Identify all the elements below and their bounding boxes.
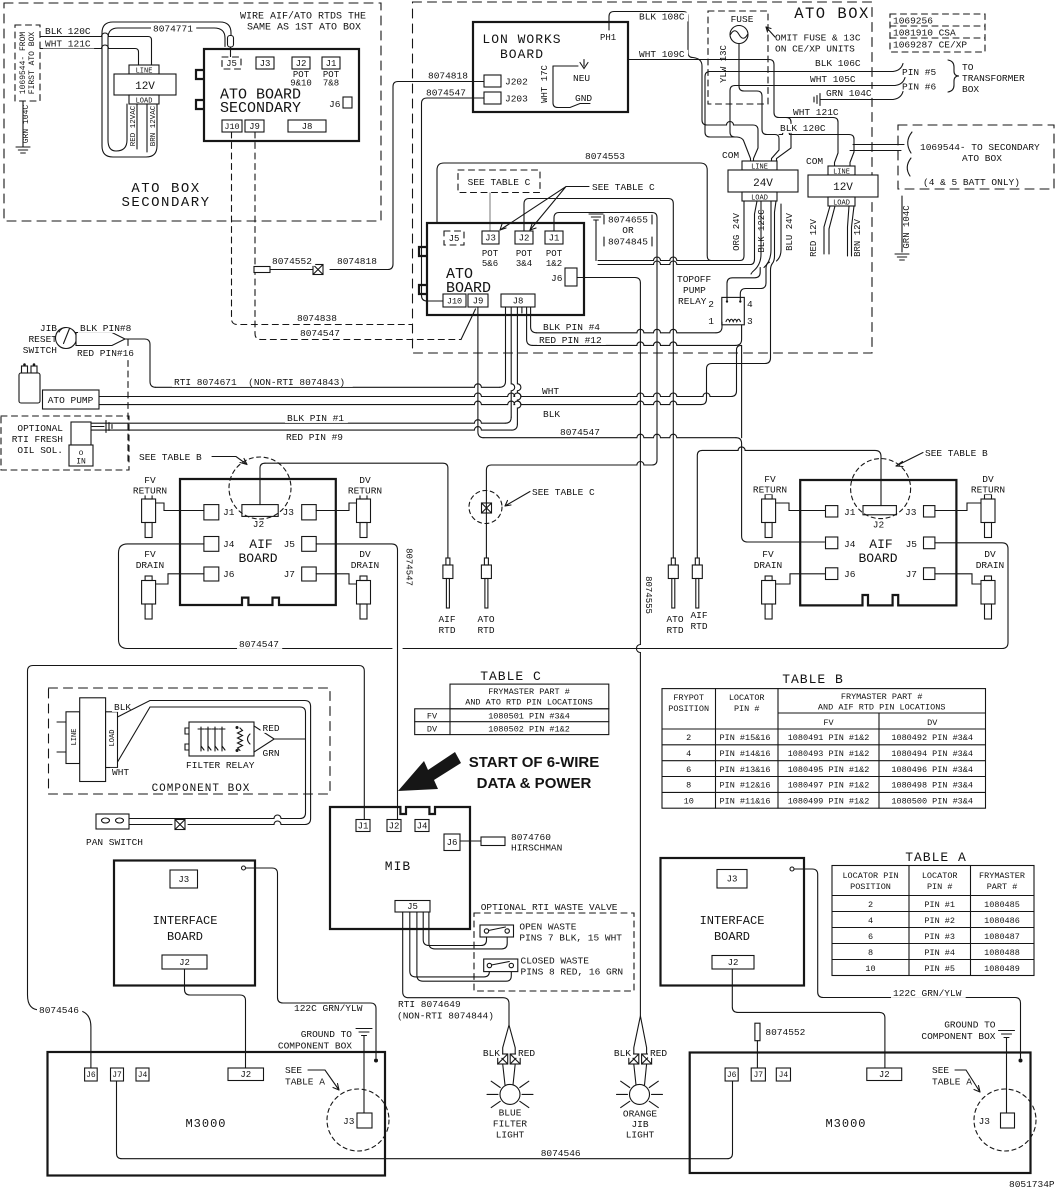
board AIF BOARD (left) bbox=[180, 479, 336, 605]
label 8074547 (top) bbox=[424, 88, 469, 97]
svg-text:J8: J8 bbox=[513, 296, 524, 306]
svg-text:FRYMASTER: FRYMASTER bbox=[979, 871, 1025, 881]
wire relay pin2 feed bbox=[727, 268, 760, 301]
svg-text:LIGHT: LIGHT bbox=[496, 1130, 525, 1141]
svg-text:RELAY: RELAY bbox=[678, 296, 707, 307]
svg-text:WHT 109C: WHT 109C bbox=[639, 49, 685, 60]
wire AIF RTD (left) feed bbox=[265, 463, 448, 558]
svg-text:1080486: 1080486 bbox=[984, 916, 1020, 926]
wire BLK 120C branch to 12V LINE bbox=[779, 131, 849, 135]
svg-text:FV: FV bbox=[144, 475, 156, 486]
splice BLK (orange light) bbox=[629, 1054, 639, 1064]
svg-text:TABLE C: TABLE C bbox=[480, 669, 542, 684]
svg-text:DV: DV bbox=[927, 718, 938, 728]
svg-text:1080489: 1080489 bbox=[984, 964, 1020, 974]
svg-text:1080502 PIN #1&2: 1080502 PIN #1&2 bbox=[488, 724, 570, 734]
wire J2(main) to right ATO RTD (via top run) bbox=[524, 199, 673, 559]
svg-text:J7: J7 bbox=[906, 569, 917, 580]
label 8074838 bbox=[295, 314, 340, 323]
connector J3 (main) bbox=[482, 231, 499, 244]
svg-text:SWITCH: SWITCH bbox=[23, 345, 57, 356]
svg-text:J6: J6 bbox=[727, 1071, 737, 1080]
svg-text:1080492 PIN #3&4: 1080492 PIN #3&4 bbox=[891, 733, 973, 743]
svg-text:8074547: 8074547 bbox=[239, 639, 279, 650]
svg-text:4: 4 bbox=[747, 299, 753, 310]
svg-text:TABLE A: TABLE A bbox=[932, 1077, 972, 1088]
connector J7 (left M3000) bbox=[111, 1068, 124, 1081]
svg-text:DRAIN: DRAIN bbox=[136, 560, 165, 571]
svg-text:DATA & POWER: DATA & POWER bbox=[477, 775, 592, 792]
svg-text:AIF: AIF bbox=[438, 614, 455, 625]
ground (GRN 104C right) bbox=[895, 254, 909, 260]
svg-text:PINS 8 RED, 16 GRN: PINS 8 RED, 16 GRN bbox=[521, 967, 624, 978]
svg-text:TO: TO bbox=[962, 62, 974, 73]
svg-text:J10: J10 bbox=[224, 122, 239, 132]
wire bottom bundle continues to right AIF bbox=[403, 648, 1002, 650]
wire 8074547 (dashed, from secondary J9) bbox=[255, 132, 461, 340]
wire V-split (orange light) bbox=[634, 1016, 647, 1054]
connector J5 (MIB) bbox=[395, 901, 430, 913]
wire BLU 24V funnel bbox=[701, 201, 776, 405]
svg-text:1080498 PIN #3&4: 1080498 PIN #3&4 bbox=[891, 781, 973, 791]
svg-text:PIN #4: PIN #4 bbox=[924, 948, 955, 958]
wire YLW 13C / BLK 120C to 12V LINE bbox=[739, 44, 779, 162]
svg-text:PART #: PART # bbox=[987, 882, 1018, 892]
svg-text:TABLE A: TABLE A bbox=[285, 1077, 325, 1088]
svg-text:WIRE AIF/ATO RTDS THE: WIRE AIF/ATO RTDS THE bbox=[240, 11, 366, 23]
node (right IB ground pad) bbox=[790, 867, 794, 871]
wire FV RETURN to J1 (right) bbox=[776, 503, 826, 511]
board ATO BOARD SECONDARY bbox=[204, 49, 359, 141]
wire BLK (transformer to pan switch loop) bbox=[118, 701, 311, 825]
svg-text:TABLE B: TABLE B bbox=[782, 672, 844, 687]
relay K1 (topoff pump relay) bbox=[722, 297, 745, 324]
svg-text:WHT 121C: WHT 121C bbox=[793, 107, 839, 118]
label BLK 106C bbox=[813, 59, 864, 68]
svg-text:BLK 106C: BLK 106C bbox=[815, 58, 861, 69]
connector J3 (secondary) bbox=[256, 57, 274, 69]
svg-text:BLK 120C: BLK 120C bbox=[780, 123, 826, 134]
svg-text:LOAD: LOAD bbox=[833, 200, 850, 208]
svg-text:1069256: 1069256 bbox=[893, 16, 933, 27]
wire relay pin4 feed bbox=[740, 262, 769, 300]
switch CLOSED WASTE bbox=[484, 959, 518, 972]
svg-text:J1: J1 bbox=[549, 233, 560, 243]
svg-text:J4: J4 bbox=[417, 821, 428, 831]
wire SEE TABLE C box to J3 bbox=[489, 193, 491, 232]
svg-text:(NON-RTI 8074844): (NON-RTI 8074844) bbox=[397, 1011, 494, 1022]
svg-text:GRN 104C: GRN 104C bbox=[22, 105, 31, 144]
connector J6 (right M3000) bbox=[725, 1068, 738, 1081]
svg-text:DV: DV bbox=[359, 475, 371, 486]
svg-text:1080485: 1080485 bbox=[984, 900, 1020, 910]
label BLK 120C bbox=[43, 27, 94, 36]
svg-text:HIRSCHMAN: HIRSCHMAN bbox=[511, 843, 562, 854]
svg-text:OR: OR bbox=[622, 225, 634, 236]
label WHT 109C bbox=[637, 50, 688, 59]
svg-text:8074771: 8074771 bbox=[153, 24, 193, 35]
svg-text:JIB: JIB bbox=[631, 1119, 648, 1130]
svg-text:BLK: BLK bbox=[543, 409, 560, 420]
valve FV RETURN (right) bbox=[762, 495, 776, 538]
connector J2 (left IB) bbox=[162, 955, 207, 969]
wire MIB J5 pin5 to open waste right bbox=[429, 912, 507, 949]
wire J2 (left AIF) drop bbox=[260, 463, 265, 504]
label BLK 108C bbox=[637, 12, 688, 21]
wire MIB J5 pin3 to closed waste right bbox=[417, 912, 511, 981]
connector J1 (MIB) bbox=[356, 820, 370, 832]
svg-text:RTD: RTD bbox=[477, 625, 494, 636]
svg-text:RTD: RTD bbox=[666, 625, 683, 636]
svg-text:8074760: 8074760 bbox=[511, 832, 551, 843]
label 8074547 (bundle) bbox=[558, 428, 603, 437]
svg-text:START OF 6-WIRE: START OF 6-WIRE bbox=[469, 754, 600, 771]
fuse enclosure (dashed) bbox=[708, 11, 768, 104]
svg-text:RED: RED bbox=[650, 1048, 667, 1059]
wire RED PIN #9 bbox=[91, 427, 511, 431]
label 8074546 (bottom) bbox=[539, 1149, 584, 1158]
svg-text:FILTER RELAY: FILTER RELAY bbox=[186, 760, 255, 771]
svg-text:SEE TABLE C: SEE TABLE C bbox=[532, 487, 595, 498]
wire J6 to hirschman bbox=[460, 840, 481, 842]
svg-text:FV: FV bbox=[764, 474, 776, 485]
connector J9 (secondary) bbox=[245, 120, 264, 132]
ATO BOX enclosure (dashed) bbox=[413, 2, 873, 353]
wire 8074818 (J202 run) bbox=[330, 82, 484, 270]
wire RED PIN #12 bbox=[533, 342, 736, 346]
transformer T2 12V bbox=[828, 166, 855, 175]
label RED (filter relay) bbox=[261, 724, 283, 733]
table TABLE B bbox=[662, 689, 986, 809]
note SEE TABLE C (dashed box) bbox=[458, 170, 540, 193]
svg-text:J5: J5 bbox=[449, 234, 460, 244]
svg-text:J7: J7 bbox=[753, 1071, 763, 1080]
solenoid OPTIONAL RTI FRESH OIL (dashed box) bbox=[1, 416, 129, 470]
svg-text:LIGHT: LIGHT bbox=[626, 1130, 655, 1141]
wire splices to blue light bbox=[503, 1064, 516, 1085]
probe AIF RTD (right) bbox=[692, 558, 702, 608]
svg-text:ATO: ATO bbox=[477, 614, 494, 625]
connector J4 (left M3000) bbox=[136, 1068, 149, 1081]
svg-text:PH1: PH1 bbox=[600, 33, 616, 43]
svg-text:RTI 8074671 (NON-RTI 8074843): RTI 8074671 (NON-RTI 8074843) bbox=[174, 377, 345, 388]
svg-text:4: 4 bbox=[686, 749, 691, 759]
wire BLK 106C bbox=[710, 71, 893, 73]
svg-text:J6: J6 bbox=[447, 838, 458, 848]
splice RED (orange light) bbox=[642, 1054, 652, 1064]
svg-text:1080491 PIN #1&2: 1080491 PIN #1&2 bbox=[788, 733, 870, 743]
COMPONENT BOX enclosure (dashed) bbox=[49, 688, 331, 794]
svg-text:PIN #12&16: PIN #12&16 bbox=[720, 781, 771, 791]
arrow (start of 6-wire) bbox=[398, 752, 461, 791]
svg-text:8074845: 8074845 bbox=[608, 237, 648, 248]
label WHT (component box) bbox=[110, 768, 132, 777]
svg-text:LOAD: LOAD bbox=[751, 195, 768, 203]
svg-text:J2: J2 bbox=[873, 520, 885, 531]
svg-text:BLK PIN #4: BLK PIN #4 bbox=[543, 322, 600, 333]
label GRN 104C bbox=[824, 89, 875, 98]
svg-text:J2: J2 bbox=[240, 1070, 251, 1080]
label 122C GRN/YLW (left) bbox=[292, 1004, 367, 1013]
svg-text:AIF: AIF bbox=[690, 610, 707, 621]
svg-text:J2: J2 bbox=[879, 1070, 890, 1080]
svg-text:LOCATOR: LOCATOR bbox=[729, 693, 765, 703]
note J3 circle (right, dashed) bbox=[974, 1089, 1036, 1151]
ground (fresh oil solenoid) bbox=[92, 421, 112, 433]
label 122C GRN/YLW (right) bbox=[891, 989, 966, 998]
svg-text:OMIT FUSE & 13C: OMIT FUSE & 13C bbox=[775, 33, 861, 44]
svg-text:OPTIONAL: OPTIONAL bbox=[17, 423, 63, 434]
svg-text:RETURN: RETURN bbox=[348, 486, 382, 497]
svg-text:J3: J3 bbox=[727, 875, 738, 885]
label BLK (component box) bbox=[112, 703, 134, 712]
svg-text:SEE: SEE bbox=[932, 1065, 949, 1076]
svg-text:8074546: 8074546 bbox=[39, 1005, 79, 1016]
svg-text:8074547: 8074547 bbox=[404, 548, 414, 586]
svg-text:J7: J7 bbox=[284, 569, 295, 580]
connector J2 (right IB) bbox=[712, 956, 754, 970]
wire BLK 120C (secondary) bbox=[40, 33, 148, 37]
connector J4 (right M3000) bbox=[776, 1068, 790, 1081]
svg-text:1080487: 1080487 bbox=[984, 932, 1020, 942]
svg-text:LOCATOR: LOCATOR bbox=[922, 871, 958, 881]
brace to transformer box bbox=[948, 60, 959, 92]
svg-text:INTERFACE: INTERFACE bbox=[153, 914, 218, 928]
connector J4 (MIB) bbox=[415, 820, 429, 832]
svg-text:INTERFACE: INTERFACE bbox=[700, 914, 765, 928]
solenoid coil (fresh oil) bbox=[71, 422, 91, 445]
svg-text:J9: J9 bbox=[249, 122, 260, 132]
svg-text:RETURN: RETURN bbox=[133, 486, 167, 497]
connector J9 (main) bbox=[468, 294, 488, 307]
node (left IB ground pad) bbox=[242, 866, 246, 870]
svg-text:BLK PIN#8: BLK PIN#8 bbox=[80, 323, 132, 334]
connector J2 (main) bbox=[515, 231, 533, 244]
svg-text:8074546: 8074546 bbox=[541, 1148, 581, 1159]
svg-text:1081910 CSA: 1081910 CSA bbox=[893, 28, 956, 39]
svg-text:1069287 CE/XP: 1069287 CE/XP bbox=[893, 40, 967, 51]
svg-text:RED: RED bbox=[263, 723, 280, 734]
svg-text:2: 2 bbox=[686, 733, 691, 743]
svg-text:1069544- TO SECONDARY: 1069544- TO SECONDARY bbox=[920, 142, 1040, 153]
svg-text:DRAIN: DRAIN bbox=[754, 560, 783, 571]
svg-text:J3: J3 bbox=[283, 507, 295, 518]
wire J7 to DV DRAIN (left) bbox=[316, 574, 356, 584]
wire J8 pin3 to RED PIN #9 run bbox=[517, 308, 521, 424]
connector J2 (right AIF) bbox=[863, 506, 896, 515]
svg-text:AND ATO RTD PIN LOCATIONS: AND ATO RTD PIN LOCATIONS bbox=[465, 698, 593, 708]
wire MIB J5 pin2 to closed waste left bbox=[410, 912, 490, 977]
svg-text:POT: POT bbox=[546, 249, 563, 259]
svg-text:COMPONENT BOX: COMPONENT BOX bbox=[152, 783, 251, 795]
wire J8 pin2 to BLK PIN #1 run bbox=[511, 308, 515, 418]
connector J3 (left IB) bbox=[170, 870, 198, 888]
svg-text:RTD: RTD bbox=[438, 625, 455, 636]
wire filter relay contacts (RED/GRN flag) bbox=[248, 726, 275, 752]
wire relay pin3 drop to 8074547 bundle bbox=[741, 345, 743, 437]
svg-text:1&2: 1&2 bbox=[546, 259, 562, 269]
svg-text:IN: IN bbox=[76, 458, 86, 467]
svg-text:SEE TABLE C: SEE TABLE C bbox=[592, 182, 655, 193]
wires to secondary ATO box bbox=[850, 145, 904, 151]
svg-text:SEE TABLE C: SEE TABLE C bbox=[468, 177, 531, 188]
probe ATO RTD (left) bbox=[481, 558, 491, 608]
note box 1069544- TO SECONDARY ATO BOX (dashed) bbox=[898, 125, 1054, 189]
svg-text:BLK: BLK bbox=[483, 1048, 500, 1059]
svg-text:J1: J1 bbox=[358, 821, 369, 831]
svg-text:122C GRN/YLW: 122C GRN/YLW bbox=[294, 1003, 363, 1014]
svg-text:BOARD: BOARD bbox=[167, 930, 203, 944]
svg-text:8074838: 8074838 bbox=[297, 313, 337, 324]
svg-text:RTI 8074649: RTI 8074649 bbox=[398, 999, 461, 1010]
svg-text:COM: COM bbox=[806, 156, 823, 167]
svg-text:6: 6 bbox=[686, 765, 691, 775]
wire J9 (main) to 8074547 bundle bbox=[478, 308, 484, 438]
svg-text:GROUND TO: GROUND TO bbox=[301, 1029, 353, 1040]
label 8074547 (dashed wire) bbox=[298, 329, 343, 338]
svg-text:DV: DV bbox=[984, 549, 996, 560]
svg-text:FRYMASTER PART #: FRYMASTER PART # bbox=[488, 687, 570, 697]
svg-text:10: 10 bbox=[684, 797, 694, 807]
wire RED 12V funnel bbox=[824, 206, 835, 254]
svg-text:WHT 105C: WHT 105C bbox=[810, 74, 856, 85]
svg-text:TOPOFF: TOPOFF bbox=[677, 274, 712, 285]
wire GRN 104C (secondary) bbox=[22, 101, 24, 147]
svg-text:8074555: 8074555 bbox=[643, 576, 653, 614]
wire BLK 108C bbox=[609, 12, 758, 162]
svg-text:LOAD: LOAD bbox=[136, 98, 153, 106]
svg-text:RED: RED bbox=[518, 1048, 535, 1059]
svg-text:PIN #15&16: PIN #15&16 bbox=[720, 733, 771, 743]
svg-text:1080500 PIN #3&4: 1080500 PIN #3&4 bbox=[891, 797, 973, 807]
valve FV DRAIN (left) bbox=[142, 576, 156, 619]
svg-text:DRAIN: DRAIN bbox=[976, 560, 1005, 571]
svg-text:J3: J3 bbox=[343, 1116, 355, 1127]
board M3000 (left) bbox=[48, 1052, 386, 1176]
label 8074818 (splice) bbox=[335, 257, 380, 266]
ground 8074655/8074845 bbox=[589, 214, 603, 220]
svg-text:8074552: 8074552 bbox=[765, 1027, 805, 1038]
svg-text:POT: POT bbox=[516, 249, 533, 259]
board AIF BOARD (right) bbox=[800, 480, 956, 605]
connector J10 (secondary) bbox=[222, 120, 242, 132]
svg-text:POT: POT bbox=[482, 249, 499, 259]
svg-text:J8: J8 bbox=[302, 122, 313, 132]
valve DV RETURN (right) bbox=[981, 495, 995, 538]
svg-text:J2: J2 bbox=[728, 958, 739, 968]
svg-text:PIN #1: PIN #1 bbox=[924, 900, 955, 910]
note box 1069256 / 1081910 CSA / 1069287 CE/XP (dashed) bbox=[890, 14, 985, 52]
connector J2 (right M3000) bbox=[867, 1068, 902, 1081]
svg-text:8074547: 8074547 bbox=[560, 427, 600, 438]
svg-text:SECONDARY: SECONDARY bbox=[220, 100, 301, 117]
switch PAN SWITCH bbox=[96, 814, 129, 829]
wire 122C GRN/YLW (left) bbox=[246, 868, 377, 1058]
connector J6 (MIB) bbox=[444, 834, 460, 851]
svg-text:J5: J5 bbox=[906, 539, 918, 550]
wire WHT 105C bbox=[735, 85, 895, 87]
svg-text:COM: COM bbox=[722, 150, 739, 161]
svg-text:OIL SOL.: OIL SOL. bbox=[17, 445, 63, 456]
label WHT 121C bbox=[43, 39, 94, 48]
wire J6(main) run to orange JIB light bbox=[577, 277, 635, 279]
svg-text:FV: FV bbox=[144, 549, 156, 560]
svg-text:J5: J5 bbox=[226, 59, 237, 69]
wire JIB switch to J8 pin1 (RTI 8074671) bbox=[125, 339, 156, 387]
board INTERFACE BOARD (left) bbox=[114, 861, 255, 986]
connector J2 (MIB) bbox=[387, 820, 401, 832]
svg-text:OPTIONAL RTI WASTE VALVE: OPTIONAL RTI WASTE VALVE bbox=[481, 902, 618, 913]
label WHT 105C bbox=[808, 75, 859, 84]
svg-text:BRN 12VAC: BRN 12VAC bbox=[150, 105, 158, 146]
wire MIB J5 pin4 to open waste left bbox=[423, 912, 486, 946]
svg-text:1080488: 1080488 bbox=[984, 948, 1020, 958]
svg-text:J1: J1 bbox=[223, 507, 235, 518]
svg-text:SEE: SEE bbox=[285, 1065, 302, 1076]
svg-text:J1: J1 bbox=[844, 507, 856, 518]
svg-text:J1: J1 bbox=[326, 59, 337, 69]
svg-text:J2: J2 bbox=[296, 59, 307, 69]
svg-text:BOARD: BOARD bbox=[858, 551, 897, 566]
connector J5 (secondary, dashed) bbox=[222, 57, 241, 69]
svg-text:2: 2 bbox=[868, 900, 873, 910]
svg-text:ATO: ATO bbox=[666, 614, 683, 625]
svg-text:J4: J4 bbox=[779, 1071, 789, 1080]
label 8074546 (left) bbox=[37, 1006, 82, 1015]
svg-text:JIB: JIB bbox=[40, 323, 57, 334]
wire MIB J5 pin1 to blue filter light bbox=[403, 912, 509, 1025]
svg-text:PIN #6: PIN #6 bbox=[902, 82, 937, 93]
label RED PIN #9 bbox=[284, 433, 347, 442]
svg-text:GRN 104C: GRN 104C bbox=[826, 88, 872, 99]
svg-text:8074818: 8074818 bbox=[428, 71, 468, 82]
wire J2 (left IB) to M3000 J2 bbox=[185, 969, 246, 1068]
valve FV DRAIN (right) bbox=[762, 576, 776, 619]
lamp ORANGE JIB LIGHT bbox=[630, 1084, 650, 1104]
svg-text:ORANGE: ORANGE bbox=[623, 1109, 658, 1120]
svg-text:J5: J5 bbox=[407, 902, 418, 912]
svg-text:SAME AS 1ST ATO BOX: SAME AS 1ST ATO BOX bbox=[247, 23, 361, 34]
lamp BLUE FILTER LIGHT bbox=[500, 1084, 520, 1104]
svg-text:1080499 PIN #1&2: 1080499 PIN #1&2 bbox=[788, 797, 870, 807]
connector J6 (right AIF) bbox=[826, 568, 838, 580]
label OPTIONAL RTI WASTE VALVE bbox=[479, 903, 624, 912]
svg-text:8: 8 bbox=[868, 948, 873, 958]
svg-text:8051734P: 8051734P bbox=[1009, 1179, 1055, 1190]
wire J4 feed (left AIF, 8074547 loop) bbox=[119, 544, 393, 649]
wire J5 (right AIF) loop to bottom bundle bbox=[935, 543, 1008, 649]
svg-text:1080496 PIN #3&4: 1080496 PIN #3&4 bbox=[891, 765, 973, 775]
svg-text:RETURN: RETURN bbox=[971, 485, 1005, 496]
connector 1069544- FROM FIRST ATO BOX (dashed) bbox=[15, 25, 40, 101]
connector plug above J5 (secondary) bbox=[228, 36, 234, 48]
wire J8 pin6 to BLK PIN #4 bbox=[531, 308, 537, 333]
svg-text:3: 3 bbox=[747, 316, 753, 327]
wire J2 (right IB) to M3000 J2 bbox=[732, 969, 885, 1069]
svg-text:ON CE/XP UNITS: ON CE/XP UNITS bbox=[775, 44, 855, 55]
connector J10 (main) bbox=[443, 294, 466, 307]
svg-text:1080494 PIN #3&4: 1080494 PIN #3&4 bbox=[891, 749, 973, 759]
wire 8074838 (dashed, from secondary J10) bbox=[232, 132, 413, 325]
svg-text:CLOSED WASTE: CLOSED WASTE bbox=[521, 956, 590, 967]
svg-text:RTI FRESH: RTI FRESH bbox=[12, 434, 63, 445]
note SEE TABLE C circle (dashed) bbox=[469, 491, 502, 524]
wire GRN 104C bbox=[823, 99, 893, 101]
svg-text:J6: J6 bbox=[329, 99, 341, 110]
svg-text:J4: J4 bbox=[223, 539, 235, 550]
svg-text:5&6: 5&6 bbox=[482, 259, 498, 269]
svg-text:MIB: MIB bbox=[385, 859, 411, 874]
